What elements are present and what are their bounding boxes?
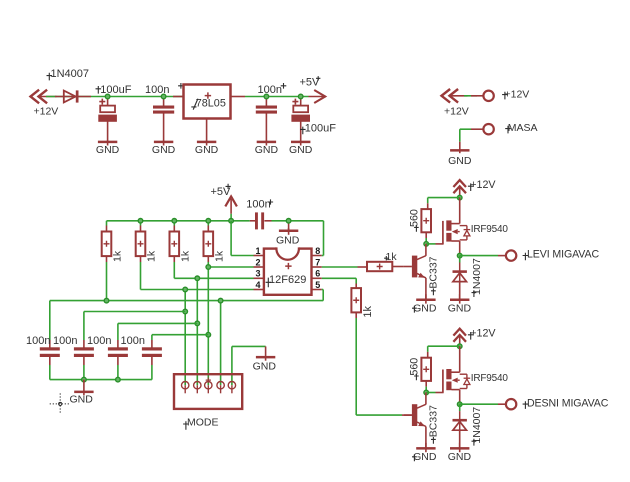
svg-text:GND: GND (289, 144, 313, 156)
svg-text:GND: GND (152, 144, 176, 156)
svg-text:100n: 100n (258, 84, 282, 96)
svg-text:560: 560 (408, 358, 420, 376)
svg-text:8: 8 (315, 246, 320, 256)
svg-text:GND: GND (96, 144, 120, 156)
svg-text:100uF: 100uF (100, 84, 131, 96)
svg-text:100n: 100n (53, 335, 77, 347)
svg-text:MASA: MASA (508, 122, 538, 134)
svg-text:+12V: +12V (470, 179, 496, 191)
svg-text:1k: 1k (214, 250, 226, 262)
svg-text:6: 6 (315, 269, 320, 279)
svg-text:LEVI MIGAVAC: LEVI MIGAVAC (527, 249, 599, 261)
svg-text:4: 4 (255, 280, 260, 290)
svg-text:2: 2 (255, 257, 260, 267)
svg-text:MODE: MODE (187, 417, 219, 429)
svg-text:GND: GND (448, 155, 472, 167)
svg-text:1k: 1k (146, 250, 158, 262)
svg-text:GND: GND (195, 144, 219, 156)
svg-text:BC337: BC337 (428, 256, 440, 288)
svg-text:100n: 100n (26, 335, 50, 347)
svg-text:IRF9540: IRF9540 (471, 373, 509, 384)
svg-text:78L05: 78L05 (196, 98, 226, 110)
svg-text:560: 560 (408, 209, 420, 227)
svg-text:GND: GND (255, 144, 279, 156)
svg-text:+12V: +12V (505, 89, 530, 101)
svg-text:100uF: 100uF (305, 122, 336, 134)
svg-text:GND: GND (448, 303, 472, 315)
svg-text:+12V: +12V (34, 106, 59, 118)
svg-text:1N4007: 1N4007 (471, 407, 483, 444)
svg-text:1N4007: 1N4007 (471, 258, 483, 295)
svg-text:100n: 100n (246, 198, 270, 210)
svg-text:DESNI MIGAVAC: DESNI MIGAVAC (527, 397, 609, 409)
svg-text:100n: 100n (87, 335, 111, 347)
svg-text:+12V: +12V (444, 106, 469, 118)
svg-text:12F629: 12F629 (269, 274, 306, 286)
svg-text:GND: GND (448, 451, 472, 463)
svg-text:GND: GND (253, 360, 277, 372)
svg-text:IRF9540: IRF9540 (471, 224, 509, 235)
svg-text:7: 7 (315, 257, 320, 267)
svg-text:1k: 1k (180, 250, 192, 262)
svg-text:1k: 1k (362, 305, 374, 317)
svg-text:5: 5 (315, 280, 320, 290)
svg-text:+12V: +12V (470, 328, 496, 340)
svg-text:GND: GND (276, 234, 300, 246)
svg-text:3: 3 (255, 269, 260, 279)
svg-text:1k: 1k (386, 251, 398, 263)
svg-text:1: 1 (255, 246, 260, 256)
svg-text:BC337: BC337 (428, 405, 440, 437)
svg-text:1N4007: 1N4007 (51, 68, 90, 80)
svg-text:100n: 100n (145, 84, 169, 96)
svg-text:1k: 1k (112, 250, 124, 262)
svg-text:GND: GND (70, 394, 94, 406)
svg-text:100n: 100n (121, 335, 145, 347)
